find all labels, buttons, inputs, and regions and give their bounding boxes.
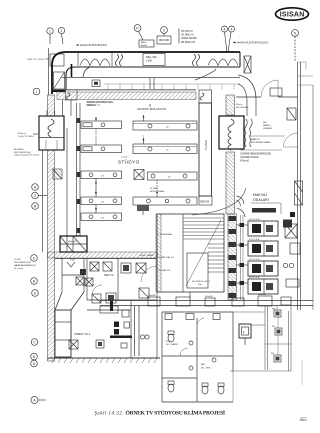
svg-text:V1/2: V1/2	[70, 259, 76, 262]
svg-text:B: B	[33, 355, 35, 359]
studio left diffuser row 1	[81, 117, 122, 129]
svg-text:Şekil 14.32.: Şekil 14.32.	[95, 412, 124, 417]
toilet 1	[168, 331, 174, 342]
door arc right wall	[284, 133, 298, 147]
left margin bubble D1	[32, 290, 39, 297]
svg-text:5x5: 5x5	[101, 217, 105, 219]
label hucreli susturucu	[14, 148, 39, 157]
flex joint 2 in duct	[193, 54, 200, 66]
label akustik izolasyon	[137, 104, 166, 111]
equipment square e	[92, 294, 101, 303]
svg-text:2: 2	[61, 29, 63, 33]
caption	[95, 410, 226, 417]
wall elbow duct makyaj	[237, 196, 245, 206]
fresh air intake box top left	[50, 54, 64, 66]
reg box in duct	[143, 54, 165, 66]
stair direction line	[186, 220, 221, 286]
sink 3	[212, 358, 216, 362]
wc labels	[166, 340, 211, 369]
attenuator wave right in duct	[208, 59, 238, 66]
main supply duct outer (thick)	[52, 52, 240, 94]
door arc top right	[261, 80, 278, 97]
left margin bubble B1	[31, 278, 38, 285]
svg-text:28.650m³/h: 28.650m³/h	[181, 40, 196, 44]
dekor box below shaft	[199, 196, 212, 205]
svg-text:FCU 2.5-B: FCU 2.5-B	[249, 259, 260, 261]
V1/2 label	[67, 259, 76, 268]
svg-text:M.5-200 A/m: M.5-200 A/m	[236, 106, 249, 109]
svg-text:SUSTURUCU(S): SUSTURUCU(S)	[14, 262, 31, 264]
svg-text:-VS MAK 2/8: -VS MAK 2/8	[158, 269, 171, 272]
fan coil unit 1	[248, 219, 278, 236]
right attenuator box	[219, 116, 244, 150]
studio left diffuser row 5	[81, 205, 122, 221]
svg-text:400x200: 400x200	[205, 296, 214, 298]
svg-text:AKUSTİK İZOLASYON: AKUSTİK İZOLASYON	[137, 106, 166, 111]
equipment room inner duct	[87, 306, 131, 313]
video room small boxes	[121, 310, 130, 348]
bottom hatch line left	[48, 358, 161, 363]
riser drop to corridor duct	[190, 292, 232, 300]
stair left partition	[182, 214, 184, 292]
svg-text:H: H	[34, 186, 37, 190]
thick sill below vertical duct	[52, 90, 74, 92]
right elbow inner	[238, 84, 247, 100]
svg-text:PANEL +: PANEL +	[263, 124, 273, 127]
grid bubble 5	[292, 30, 299, 62]
svg-text:(S serini): (S serini)	[14, 267, 23, 270]
equipment square h	[69, 340, 78, 349]
svg-text:5: 5	[294, 32, 296, 36]
stair room labels	[158, 233, 175, 272]
toilet 4	[218, 383, 224, 394]
grid bubble 4	[222, 26, 228, 52]
svg-text:x 500: x 500	[146, 60, 153, 63]
wall mounted units video room	[114, 322, 119, 335]
stairwell west wall hatch	[156, 214, 161, 292]
black unit right wall	[290, 212, 295, 217]
svg-text:AYR.PERDE KABIN: AYR.PERDE KABIN	[251, 141, 271, 144]
equipment room walls	[55, 259, 158, 359]
small unit box r3	[274, 355, 281, 362]
label sagus susturucusu	[87, 101, 114, 107]
left margin bubble E	[31, 255, 38, 262]
svg-text:ÖRNEK TV STÜDYOSU KLİMA PROJES: ÖRNEK TV STÜDYOSU KLİMA PROJESİ	[126, 410, 226, 417]
AHU body	[55, 310, 71, 357]
svg-text:C: C	[33, 341, 36, 345]
label studyo data block	[179, 29, 197, 44]
svg-text:(Ö.ÖN: (Ö.ÖN	[14, 258, 21, 261]
inner wall hatched right of shaft	[226, 95, 237, 300]
equipment square c	[121, 263, 131, 273]
door arc wc2	[197, 318, 204, 326]
svg-text:5x5: 5x5	[101, 175, 105, 177]
svg-text:ODALARI: ODALARI	[253, 198, 269, 202]
left margin bubble M	[32, 203, 39, 210]
svg-text:1: 1	[49, 30, 51, 34]
terrace edge line	[312, 85, 314, 310]
svg-text:455: 455	[300, 418, 308, 423]
label gomme nemlendirici	[240, 153, 271, 163]
supply shaft Y.HAVA	[199, 103, 212, 196]
top right wall segment	[236, 85, 313, 97]
toilet 2	[168, 381, 174, 392]
studio left diffuser row 4	[81, 179, 122, 205]
svg-text:(HACMI): (HACMI)	[87, 104, 96, 107]
studio left diffuser row 2	[81, 129, 122, 153]
top right parapet lines	[298, 62, 314, 76]
logo ISISAN	[276, 8, 309, 20]
right rooms walls bottom	[230, 306, 302, 385]
makyaj wall seg 2	[240, 149, 282, 151]
svg-text:İP İK: İP İK	[166, 340, 171, 343]
stairwell outer	[157, 214, 224, 292]
svg-text:1.1 HELA MAK.: 1.1 HELA MAK.	[158, 233, 173, 236]
studio mid diffuser row 4	[133, 180, 197, 205]
small unit box r1	[274, 310, 281, 317]
fan coil unit 4	[248, 277, 278, 294]
label ufleme susturucusu	[86, 101, 113, 107]
svg-text:4: 4	[224, 28, 226, 32]
riser duct to AHU	[62, 258, 84, 292]
svg-text:MAKYAJ: MAKYAJ	[253, 193, 267, 197]
door arc equipment room	[92, 285, 102, 295]
svg-text:HAVA SUSTURUCUSU: HAVA SUSTURUCUSU	[237, 41, 268, 45]
svg-text:500x500: 500x500	[68, 241, 77, 243]
equipment square b	[103, 262, 112, 271]
AHU taper	[55, 292, 84, 310]
fan coil unit 2	[248, 239, 278, 256]
label hava susturucusu right	[233, 41, 268, 45]
svg-text:FCU 2.5-B: FCU 2.5-B	[249, 219, 260, 221]
right drop duct lines	[247, 98, 256, 116]
right outer wall	[298, 62, 301, 310]
door arc into stair	[141, 266, 157, 282]
svg-text:i: i	[36, 90, 37, 94]
equipment cluster x-squares	[76, 277, 84, 285]
corridor elbow to fcu	[237, 208, 246, 217]
svg-text:W.C. ERK.: W.C. ERK.	[201, 367, 211, 369]
small shaft right wall	[287, 108, 296, 120]
damper square studio	[134, 170, 144, 180]
label on susturucu block	[14, 258, 36, 270]
svg-text:300x200: 300x200	[258, 294, 267, 296]
svg-text:DEKOR: DEKOR	[200, 200, 209, 204]
right flex box after duct	[244, 56, 251, 73]
svg-text:Taban köşedüz (75 serini): Taban köşedüz (75 serini)	[14, 154, 39, 157]
svg-text:B: B	[33, 280, 35, 284]
svg-text:YUKARI SAL 3-4: YUKARI SAL 3-4	[158, 256, 175, 259]
ceiling hatch band	[57, 92, 196, 100]
small unit box r2	[275, 328, 282, 335]
grid bubble 1	[47, 28, 53, 44]
small box right top	[270, 88, 282, 96]
wall anchor box	[53, 169, 62, 179]
label kabe perde	[251, 138, 271, 144]
svg-text:5x5: 5x5	[101, 201, 105, 203]
left margin bubble H	[32, 184, 39, 191]
svg-text:HM: HM	[263, 122, 267, 124]
svg-text:16-46 *97 50/60: 16-46 *97 50/60	[18, 136, 34, 138]
left wall hatched	[48, 95, 55, 361]
svg-text:SPR.LEVHASI: SPR.LEVHASI	[150, 190, 165, 193]
flex squiggle lower band	[66, 90, 78, 100]
supply shaft flex box	[199, 90, 212, 103]
svg-text:E: E	[33, 257, 35, 261]
svg-text:FCU 2.5-B: FCU 2.5-B	[249, 277, 260, 279]
label ver tip susturucu	[27, 58, 49, 61]
left margin bubble G	[32, 192, 47, 199]
makyaj room wall	[251, 203, 281, 214]
svg-text:BAY: BAY	[201, 363, 206, 366]
svg-text:REG.: REG.	[141, 42, 147, 44]
attenuator wave left in duct	[80, 59, 110, 66]
svg-text:D: D	[34, 292, 37, 296]
svg-text:SES Yb: SES Yb	[104, 273, 114, 277]
label hava susturucu	[76, 43, 107, 47]
svg-text:± 0.00: ± 0.00	[121, 157, 128, 159]
svg-text:ISISAN: ISISAN	[280, 11, 305, 18]
label box below m4	[137, 205, 149, 215]
svg-text:A: A	[33, 399, 36, 403]
floor hatch band mid	[48, 252, 158, 258]
corridor duct double line	[100, 301, 313, 306]
svg-text:FCU 2.5-B: FCU 2.5-B	[249, 239, 260, 241]
fcu supply pipes vertical	[241, 215, 244, 300]
svg-text:G: G	[34, 194, 37, 198]
studio mid diffuser row 3	[148, 172, 198, 180]
big door arc studio to makyaj	[192, 188, 246, 215]
svg-text:SAĞU5 SUSTURUCU(SU): SAĞU5 SUSTURUCU(SU)	[87, 101, 114, 104]
video room drop duct	[135, 306, 140, 356]
stair core	[187, 253, 208, 288]
fan coil unit 3	[248, 259, 278, 276]
upper-to-lower connector	[72, 64, 94, 77]
toilet 3	[202, 383, 208, 394]
small boxes right of fcu	[283, 243, 300, 287]
riser black mark	[110, 301, 113, 311]
fcu riser connections	[237, 225, 249, 283]
svg-text:2: 2	[143, 136, 145, 139]
equipment square a	[90, 262, 99, 271]
equipment square g	[139, 288, 149, 298]
svg-text:W.C. KADIN: W.C. KADIN	[166, 343, 178, 346]
svg-text:SUSTURUCU(S): SUSTURUCU(S)	[14, 152, 31, 154]
svg-text:50x50: 50x50	[141, 45, 148, 47]
equipment square f	[106, 293, 116, 303]
label makyaj odalari	[253, 193, 269, 202]
right elbow outer	[238, 75, 256, 98]
sink 2	[189, 366, 193, 370]
svg-text:F: F	[243, 331, 245, 335]
dark unit	[80, 269, 86, 275]
corridor duct labels	[148, 294, 267, 298]
reg box under bubble P	[139, 40, 154, 47]
svg-text:M: M	[34, 205, 37, 209]
flex joint symbol in duct	[116, 54, 123, 66]
label by attenuator	[236, 103, 249, 109]
damper box right of fcu	[285, 224, 297, 238]
lower band duct (ceiling plenum)	[52, 78, 240, 90]
makyaj wall seg 1	[249, 135, 285, 137]
left margin grid bubble row1	[33, 88, 40, 95]
wc top wall boxes	[165, 314, 220, 320]
heat exchanger box left	[39, 110, 64, 150]
svg-text:500x200: 500x200	[148, 295, 157, 297]
attenuator left partitions	[78, 53, 112, 66]
svg-text:VER.TİP SUST.: VER.TİP SUST.	[27, 58, 45, 61]
wc block walls	[162, 312, 233, 402]
black unit above damper	[283, 220, 292, 228]
sink 1	[189, 341, 193, 345]
svg-text:HAVALANDIRMA ÜST: HAVALANDIRMA ÜST	[14, 264, 36, 267]
svg-text:FL MES: FL MES	[150, 188, 158, 190]
duct right end cap	[239, 52, 241, 67]
makyaj counter dark band	[252, 208, 276, 213]
stair treads upper	[183, 218, 224, 239]
wall lines below heat exchanger	[43, 128, 68, 252]
svg-text:DİMMER: DİMMER	[263, 127, 272, 130]
right rooms partition walls	[233, 312, 291, 344]
equipment square i	[96, 340, 104, 348]
left margin bubble D2	[31, 360, 38, 367]
label hol	[192, 281, 211, 286]
duct drop to heat exchanger	[63, 100, 72, 116]
svg-text:tün: tün	[168, 176, 171, 179]
label oden te	[18, 132, 38, 138]
corridor duct boxes	[148, 296, 291, 306]
studio mid diffuser row 1	[133, 115, 197, 130]
twin gauges	[140, 335, 149, 339]
svg-text:Y.HAVA: Y.HAVA	[204, 140, 208, 150]
label hm panel dimmer	[263, 122, 273, 130]
svg-text:(P.tümü): (P.tümü)	[240, 159, 249, 162]
wall edge line above duct	[48, 48, 50, 95]
equipment square d	[136, 263, 146, 273]
right wall ladder shaft	[295, 181, 303, 205]
label fl mes spiri	[150, 188, 165, 193]
F box unit	[239, 324, 251, 345]
main riser duct through floor	[60, 236, 87, 252]
svg-text:D: D	[33, 362, 36, 366]
svg-text:Ø'm te: Ø'm te	[236, 103, 243, 106]
damper in vertical duct below elbow	[54, 72, 65, 89]
svg-text:tün: tün	[166, 126, 169, 129]
main supply duct inner corner	[66, 67, 240, 94]
stair treads lower	[208, 244, 224, 272]
svg-text:HAVA SUSTURUCU: HAVA SUSTURUCU	[80, 43, 107, 47]
studio left diffuser row 3	[81, 171, 122, 179]
elbow into shaft from duct	[195, 69, 216, 80]
left margin bubble C	[31, 339, 38, 346]
door arc wc1	[180, 348, 188, 356]
fb labels	[271, 309, 276, 356]
svg-text:4: 4	[231, 28, 233, 32]
left margin bubble B2	[31, 353, 38, 360]
svg-text:ELEK. LAMBT: ELEK. LAMBT	[140, 254, 155, 257]
studio west wall	[77, 103, 81, 236]
svg-text:B'm: B'm	[198, 284, 202, 286]
svg-text:VİDEO Yb 2: VİDEO Yb 2	[74, 331, 91, 336]
label studyo	[118, 157, 140, 165]
dark duct band video room	[110, 336, 132, 339]
svg-text:tün: tün	[166, 149, 169, 152]
svg-text:3: 3	[163, 29, 165, 33]
left margin bubble A	[31, 397, 46, 404]
svg-text:Ø'den te: Ø'den te	[18, 132, 27, 135]
air filter box lower band	[92, 80, 100, 87]
studio mid diffuser row 2	[133, 136, 197, 154]
canvas connector squiggle	[245, 119, 253, 147]
svg-text:HÜCRELİ: HÜCRELİ	[14, 148, 24, 151]
grid bubble 4a	[228, 26, 235, 52]
box connectors to duct	[277, 306, 278, 355]
svg-text:STÜDYO: STÜDYO	[118, 159, 140, 165]
svg-text:P: P	[136, 27, 139, 31]
svg-text:KABE M: KABE M	[251, 138, 259, 141]
grid bubble 2	[58, 27, 64, 44]
svg-text:NO 4298 B. HOL 2: NO 4298 B. HOL 2	[192, 281, 211, 283]
damper box under bubble 3	[157, 36, 171, 44]
grid bubble 3	[161, 27, 168, 36]
grid bubble P	[134, 25, 143, 40]
